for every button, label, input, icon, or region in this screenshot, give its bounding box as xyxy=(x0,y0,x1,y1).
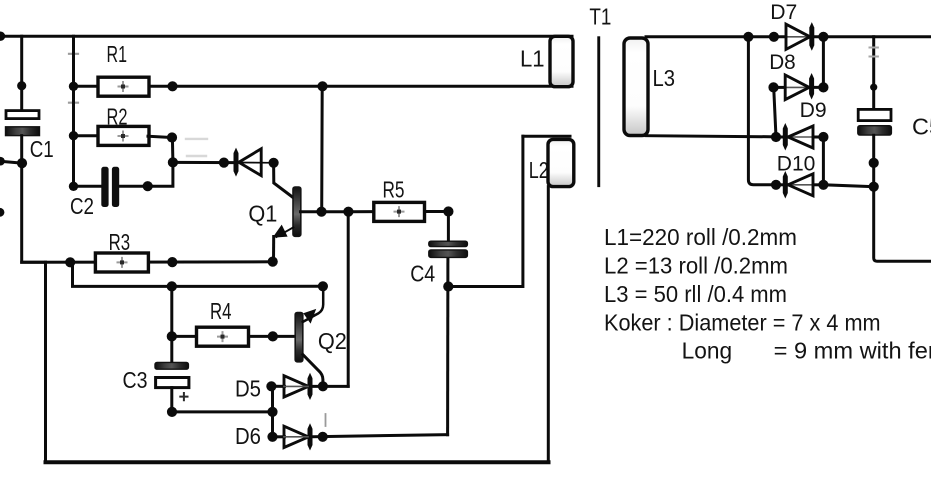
node D10 cathode left xyxy=(771,180,781,190)
wire L2 bottom terminal to bottom rail xyxy=(547,187,550,463)
transistor Q1 emitter with arrow xyxy=(277,227,294,237)
node C3 to diode rail xyxy=(267,407,277,417)
node R3 right lead xyxy=(167,257,177,267)
wire D7-D8 right vertical xyxy=(822,37,825,88)
artifact tick on rail lower xyxy=(69,98,78,107)
wire C3 bottom jog to D5-D6 rail xyxy=(172,388,273,412)
node base row to D5 vertical xyxy=(343,207,353,217)
wire jog R2 output down to diode row xyxy=(171,138,175,163)
node top rail to D10 vertical xyxy=(743,32,753,42)
wire D9-D10 right vertical xyxy=(822,137,825,185)
svg-text:R4: R4 xyxy=(210,298,232,324)
node C5 rail and D10 output xyxy=(869,182,879,192)
node C4 bottom junction xyxy=(443,281,453,291)
wire jog down to C2 row xyxy=(120,162,173,186)
node C2 right lead xyxy=(143,181,153,191)
transistor Q2 bar xyxy=(295,313,303,362)
artifact tick on rail xyxy=(69,49,78,58)
diode D4 triangle xyxy=(239,149,261,176)
artifact ticks on C5 lead xyxy=(870,48,878,57)
svg-text:Long: Long xyxy=(682,338,733,364)
node Q1 base junction with vertical xyxy=(316,207,326,217)
wire branch to bottom rail xyxy=(44,262,47,462)
wire L3 bottom edge xyxy=(646,136,776,137)
wire sub rail from R3 junction down xyxy=(73,262,323,286)
svg-text:Koker : Diameter = 7 x 4 mm: Koker : Diameter = 7 x 4 mm xyxy=(604,309,881,335)
resistor R5 xyxy=(374,202,425,221)
resistor R2 xyxy=(98,126,149,145)
node on C5 top lead xyxy=(870,84,877,91)
svg-text:D7: D7 xyxy=(770,0,797,24)
node R1 left junction xyxy=(69,82,78,91)
wire Q1 emitter stub xyxy=(272,237,275,262)
wire R4 left lead xyxy=(172,335,197,338)
inductor L2 end cap xyxy=(548,139,574,186)
artifact dashes near diode xyxy=(186,138,207,140)
diode D8 xyxy=(785,73,814,100)
node R2 output xyxy=(167,132,177,142)
transistor Q1 bar xyxy=(293,187,301,236)
wire D10 output to C5 rail xyxy=(823,185,873,187)
node R1 right lead xyxy=(167,81,177,91)
node D7 cathode xyxy=(818,32,828,42)
node D5 right / Q2 collector xyxy=(318,381,328,391)
svg-text:D10: D10 xyxy=(777,152,816,176)
wire D5-D6 left vertical xyxy=(271,386,274,437)
wire R3 row xyxy=(22,260,273,264)
svg-text:C5: C5 xyxy=(912,113,931,139)
svg-text:L3 = 50 rll /0.4 mm: L3 = 50 rll /0.4 mm xyxy=(604,281,787,307)
node C1 top lead xyxy=(17,81,26,90)
svg-text:D6: D6 xyxy=(235,423,261,449)
wire Q1 collector xyxy=(274,163,294,198)
wire R2 left lead xyxy=(74,134,99,137)
wire C5 top lead from top rail xyxy=(872,37,875,109)
node Q1 emitter to R3 row xyxy=(268,257,278,267)
node R4 branch junction xyxy=(167,281,177,291)
wire Q1 base lead xyxy=(301,210,349,213)
wire R5 output down to C4 xyxy=(447,212,450,242)
node D8 anode xyxy=(768,82,778,92)
svg-text:L1: L1 xyxy=(520,45,545,71)
wire stub from left edge xyxy=(0,161,22,163)
node D10 anode right xyxy=(818,180,828,190)
svg-text:L2 =13 roll /0.2mm: L2 =13 roll /0.2mm xyxy=(604,253,788,279)
svg-text:Q1: Q1 xyxy=(248,201,277,227)
diode D4 unlabeled near Q1 : cathode bar xyxy=(234,148,239,177)
wire R5 row xyxy=(348,210,374,213)
inductor L2 top lead xyxy=(523,135,570,138)
capacitor C2 xyxy=(101,167,119,207)
node below C5 xyxy=(869,158,879,168)
diode D7 xyxy=(786,22,814,51)
wire C2 left lead xyxy=(74,185,101,188)
wire L1 bottom rail from R1 xyxy=(148,85,572,88)
transistor Q2 collector down to D5 node xyxy=(303,355,323,387)
node diode row left xyxy=(168,157,178,167)
diode D9 reversed xyxy=(783,123,813,151)
diode D5 xyxy=(284,373,313,400)
artifact dash above D6 node xyxy=(325,414,327,426)
node R3 row left junction xyxy=(65,257,75,267)
wire C4 junction to L2 left xyxy=(448,136,523,286)
svg-text:L3: L3 xyxy=(653,65,676,91)
svg-text:R5: R5 xyxy=(383,177,405,203)
wire D10 row xyxy=(776,183,787,186)
node D9 anode right xyxy=(818,132,828,142)
inductor L1 end cap xyxy=(550,36,573,86)
svg-text:C1: C1 xyxy=(30,136,54,162)
inductor L3 end cap xyxy=(624,38,648,136)
node D6 left xyxy=(267,432,277,442)
node R2 left junction xyxy=(69,131,78,140)
node left edge of top rail xyxy=(0,32,5,41)
svg-text:R2: R2 xyxy=(107,104,128,130)
wire D5 row xyxy=(271,385,284,388)
wire D9 row xyxy=(776,136,787,139)
svg-text:R1: R1 xyxy=(107,41,128,67)
node diode right lead xyxy=(219,158,229,168)
transistor Q2 emitter with arrow up to junction xyxy=(303,286,323,322)
capacitor C5 xyxy=(858,109,892,135)
node D5 left xyxy=(266,381,276,391)
svg-text:L2: L2 xyxy=(529,157,549,183)
capacitor C4 xyxy=(429,241,468,257)
svg-text:T1: T1 xyxy=(589,4,611,30)
svg-text:D5: D5 xyxy=(235,376,261,402)
node Q2 emitter junction xyxy=(318,281,328,291)
wire bottom rail xyxy=(46,460,549,464)
wire vertical from L1 bottom rail to Q1 base xyxy=(320,86,324,211)
wire C4 bottom vertical xyxy=(446,257,449,434)
wire vertical to R4 and C3 xyxy=(170,286,173,362)
wire R1 left lead xyxy=(74,85,99,88)
node D6 right xyxy=(318,432,328,442)
resistor R1 xyxy=(98,77,149,96)
wire left rail feeding R1 R2 C2 xyxy=(72,36,75,186)
wire C1 bottom to R3 row xyxy=(22,136,46,263)
resistor R3 xyxy=(95,253,148,272)
node junction to Q1 base vertical xyxy=(317,81,327,91)
wire diode row to diode xyxy=(173,161,234,164)
capacitor C3 xyxy=(155,362,189,400)
wire D8 anode down to D9 xyxy=(774,87,776,137)
svg-text:R3: R3 xyxy=(109,229,131,255)
svg-text:L1=220 roll /0.2mm: L1=220 roll /0.2mm xyxy=(604,224,797,250)
wire through diode to Q1 collector node xyxy=(238,162,274,164)
diode D10 reversed xyxy=(783,171,813,199)
svg-text:C3: C3 xyxy=(123,367,148,393)
node R5 output xyxy=(443,206,453,216)
node Q1 collector top xyxy=(269,158,279,168)
wire D6 row xyxy=(273,435,285,438)
svg-text:D8: D8 xyxy=(769,50,796,74)
wire vertical Q1 base row to D5 node xyxy=(347,212,350,387)
diode D6 xyxy=(284,423,313,450)
node C1 branch junction xyxy=(17,158,27,168)
svg-text:C4: C4 xyxy=(410,261,435,287)
node R4 right lead xyxy=(268,331,278,341)
wire C5 bottom lead down and out right xyxy=(874,135,931,261)
node R4 left junction xyxy=(167,331,177,341)
capacitor C1 xyxy=(6,111,40,136)
node lone half dot at left edge xyxy=(0,208,4,217)
wire D8 row xyxy=(774,86,785,89)
node at left edge stub xyxy=(0,157,5,166)
wire top supply rail xyxy=(0,35,572,38)
wire D7 left vertical down to D10 xyxy=(748,37,776,185)
svg-text:C2: C2 xyxy=(70,193,94,219)
wire C1 branch from top rail xyxy=(20,36,23,110)
wire R4 right lead to Q2 base xyxy=(249,335,295,338)
node C2 left junction xyxy=(69,182,78,191)
svg-text:Q2: Q2 xyxy=(318,328,347,354)
wire R5 right lead xyxy=(425,210,449,213)
node D8 cathode xyxy=(818,82,828,92)
svg-text:D9: D9 xyxy=(800,98,827,122)
node D7 anode lead xyxy=(769,32,779,42)
transformer T1 core xyxy=(597,36,600,187)
resistor R4 xyxy=(197,327,249,346)
wire L3 top edge / right top rail xyxy=(646,35,786,38)
node D9 cathode left xyxy=(771,132,781,142)
wire R2 right lead xyxy=(148,136,172,137)
svg-text:= 9 mm with ferr: = 9 mm with ferr xyxy=(774,338,931,364)
